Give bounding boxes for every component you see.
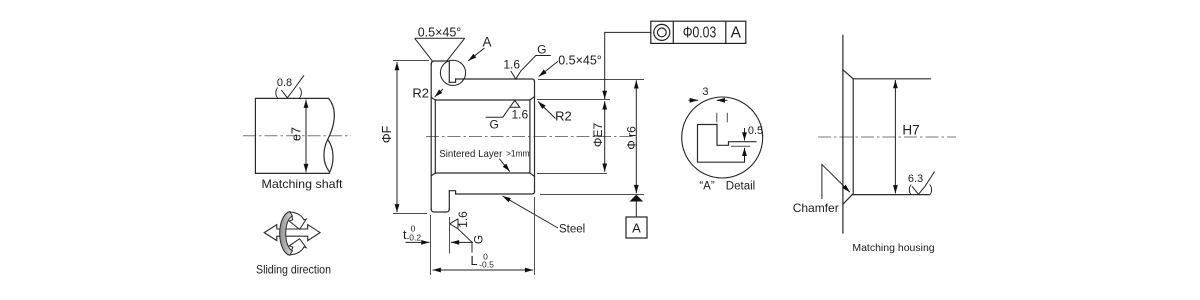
dimension PhiF bbox=[380, 61, 429, 214]
detail indicator circle bbox=[440, 60, 465, 85]
housing bore top line bbox=[853, 78, 930, 80]
rotation arrow top bbox=[289, 212, 307, 229]
detail circle bbox=[682, 97, 763, 178]
surface finish 0.8 on shaft bbox=[275, 75, 304, 98]
flange right face upper bbox=[448, 61, 450, 82]
horizontal double arrow (slide axis) bbox=[264, 225, 320, 241]
bore chamfer edge right bbox=[529, 100, 531, 173]
fillet note R2 right bbox=[538, 102, 572, 124]
relief groove upper bbox=[449, 79, 455, 82]
detail broken face lines bbox=[717, 113, 728, 122]
svg-text:Φ r6: Φ r6 bbox=[625, 126, 639, 150]
svg-text:A: A bbox=[482, 35, 491, 50]
surface symbol G 1.6 on flange face (rotated) bbox=[450, 211, 486, 253]
svg-text:0.5×45°: 0.5×45° bbox=[418, 26, 462, 40]
datum A symbol bbox=[626, 195, 647, 238]
svg-text:0.8: 0.8 bbox=[277, 77, 292, 89]
svg-text:-0.2: -0.2 bbox=[406, 233, 421, 243]
detail dimension 3 bbox=[689, 86, 728, 100]
svg-text:Sliding direction: Sliding direction bbox=[256, 263, 331, 277]
housing front face bbox=[842, 35, 844, 233]
chamfer note 0.5x45 top-right bbox=[539, 54, 602, 77]
svg-text:-0.5: -0.5 bbox=[479, 260, 494, 270]
tolerance frame: concentricity 0.03 to A bbox=[605, 21, 746, 99]
chamfer label and leader bbox=[793, 164, 850, 215]
label A leader bbox=[468, 48, 484, 61]
svg-text:e7: e7 bbox=[290, 127, 304, 141]
dimension Phi r6 bbox=[538, 80, 644, 195]
shaft outline bbox=[255, 98, 329, 173]
bore bottom line bbox=[435, 172, 530, 174]
bore top line bbox=[435, 99, 530, 101]
svg-text:ΦF: ΦF bbox=[380, 125, 394, 143]
bore entry chamfer top-left bbox=[431, 97, 435, 100]
housing centerline bbox=[818, 136, 956, 138]
surface symbol G 1.6 in bore bbox=[486, 100, 529, 131]
svg-text:1.6: 1.6 bbox=[503, 57, 520, 71]
surface symbol 6.3 bbox=[908, 172, 935, 196]
svg-text:A: A bbox=[632, 221, 641, 236]
main centerline bbox=[426, 136, 635, 138]
label: Sintered Layer >1mm bbox=[439, 148, 529, 172]
svg-text:ΦE7: ΦE7 bbox=[591, 123, 605, 148]
svg-text:Detail: Detail bbox=[726, 181, 755, 193]
rotation ring crescent (gray) bbox=[280, 212, 293, 256]
housing bottom chamfer bbox=[843, 195, 852, 205]
dimension e7 bbox=[305, 100, 307, 173]
bore entry chamfer bottom-right bbox=[530, 173, 535, 176]
svg-text:H7: H7 bbox=[902, 123, 919, 138]
shaft centerline bbox=[243, 135, 351, 137]
svg-text:(: ( bbox=[908, 184, 912, 196]
bore entry chamfer top-right bbox=[530, 97, 535, 100]
chamfer note 0.5x45 top-left bbox=[415, 26, 465, 62]
svg-text:G: G bbox=[490, 118, 499, 132]
svg-text:Φ0.03: Φ0.03 bbox=[683, 24, 717, 41]
svg-text:0.5×45°: 0.5×45° bbox=[558, 54, 602, 68]
svg-text:G: G bbox=[537, 43, 546, 57]
bore entry chamfer bottom-left bbox=[431, 173, 435, 176]
flange right face lower bbox=[448, 191, 450, 209]
dimension L bbox=[433, 197, 535, 275]
flange top edge with corner bbox=[431, 61, 449, 64]
rotation arrow bottom bbox=[289, 239, 307, 255]
body right end face bbox=[534, 82, 536, 192]
housing top chamfer bbox=[843, 70, 853, 79]
svg-text:Steel: Steel bbox=[559, 224, 585, 236]
body bottom edge bbox=[456, 192, 535, 195]
label: Steel bbox=[503, 196, 586, 236]
svg-text:0.5: 0.5 bbox=[748, 125, 763, 137]
svg-text:Matching housing: Matching housing bbox=[852, 242, 934, 254]
body top edge bbox=[456, 79, 535, 82]
svg-text:>1mm: >1mm bbox=[506, 149, 530, 159]
svg-text:“A”: “A” bbox=[699, 181, 715, 193]
svg-text:): ) bbox=[929, 184, 933, 196]
svg-text:): ) bbox=[299, 87, 303, 99]
svg-text:Matching shaft: Matching shaft bbox=[262, 177, 344, 191]
svg-text:R2: R2 bbox=[412, 86, 429, 101]
svg-text:Sintered Layer: Sintered Layer bbox=[439, 148, 502, 160]
detail profile: flange corner with relief groove bbox=[698, 125, 745, 163]
surface symbol G 1.6 on body top bbox=[503, 43, 550, 80]
svg-text:G: G bbox=[472, 235, 486, 244]
svg-text:3: 3 bbox=[702, 86, 708, 98]
flange left face bbox=[430, 64, 432, 209]
svg-text:A: A bbox=[731, 24, 742, 41]
svg-text:1.6: 1.6 bbox=[456, 211, 470, 228]
fillet note R2 left bbox=[412, 86, 443, 101]
svg-text:L: L bbox=[471, 254, 478, 268]
housing bore bottom line bbox=[852, 194, 929, 196]
dimension H7 bbox=[895, 80, 919, 193]
detail dimension 0.5 bbox=[731, 125, 763, 162]
svg-text:(: ( bbox=[275, 87, 279, 99]
housing bore edge bbox=[852, 79, 854, 195]
shaft S-break curve bbox=[324, 98, 334, 173]
flange bottom edge with corners bbox=[431, 209, 449, 212]
svg-text:R2: R2 bbox=[555, 109, 572, 124]
bore chamfer edge left bbox=[434, 100, 436, 173]
detail flange face bbox=[717, 125, 756, 146]
svg-text:1.6: 1.6 bbox=[511, 108, 528, 122]
svg-text:Chamfer: Chamfer bbox=[793, 201, 839, 215]
dimension t (flange thickness) bbox=[403, 215, 473, 275]
relief groove lower bbox=[449, 191, 455, 194]
dimension PhiE7 bbox=[537, 100, 610, 174]
